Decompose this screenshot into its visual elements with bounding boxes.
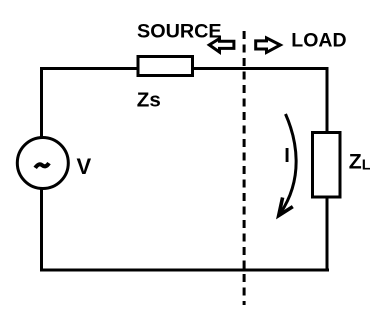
svg-text:V: V	[77, 154, 92, 179]
svg-text:SOURCE: SOURCE	[137, 21, 222, 43]
svg-text:L: L	[362, 157, 370, 174]
svg-text:Z: Z	[349, 150, 362, 173]
svg-text:Zs: Zs	[137, 89, 161, 112]
svg-text:I: I	[284, 145, 290, 167]
svg-text:LOAD: LOAD	[291, 30, 346, 52]
